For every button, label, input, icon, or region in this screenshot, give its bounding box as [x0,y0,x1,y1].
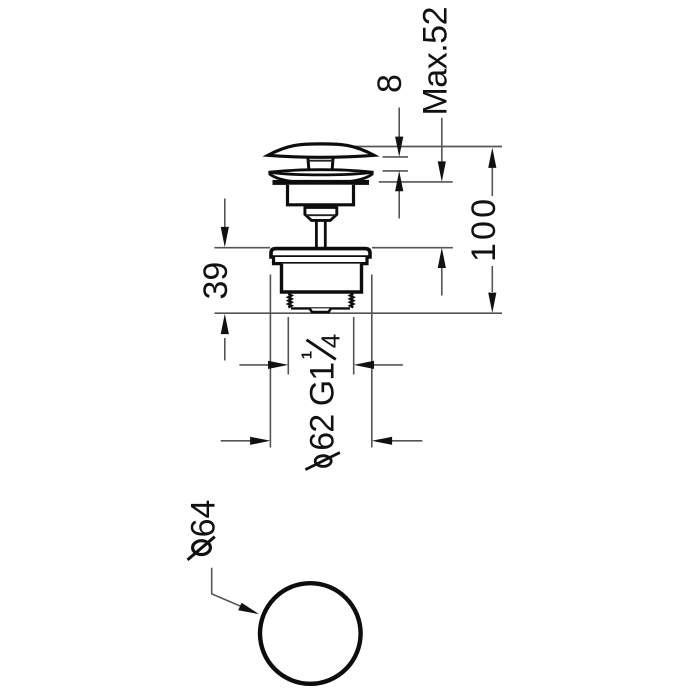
svg-text:Max.52: Max.52 [417,7,455,116]
extension line G114 left [287,317,289,375]
extension line flange top right [372,247,453,249]
gasket bar [273,180,370,185]
dim G114 right arrow [374,364,403,366]
upper body [288,185,354,205]
extension line dia62 left [269,275,271,448]
extension line 8-dim upper [383,156,409,158]
stem [315,221,318,248]
extension line dia62 right [371,275,373,448]
extension line 8-dim lower [383,170,409,172]
dim 39 lower arrow [224,338,226,361]
svg-text:64: 64 [184,500,222,538]
label dia64 [184,500,222,560]
leader line dia64 [212,568,256,613]
dim G114 left arrow [239,364,268,366]
extension line flange top left [214,247,270,249]
bottom cap [310,308,332,312]
svg-text:62 G1: 62 G1 [304,362,342,451]
bulb [305,206,337,220]
lower body [282,264,362,292]
label dia62 G1 1/4 [298,334,345,470]
dim 8 upper arrow [398,108,400,153]
flange rosette [269,170,374,175]
thread right [350,294,353,308]
svg-text:1: 1 [298,351,315,359]
skirt left [269,174,295,182]
svg-text:39: 39 [197,262,235,300]
cap neck [308,157,333,170]
dim 100 upper arrow [491,152,493,196]
thread bottom [291,307,350,309]
dim 100 lower arrow [491,266,493,292]
svg-text:8: 8 [371,74,409,93]
dim dia62 right arrow [392,440,422,442]
lower flange [271,249,370,257]
extension line G114 right [353,317,355,375]
extension line gasket bottom right [379,181,453,183]
circle dia64 [260,583,361,684]
cap dome [268,144,374,157]
dim 39 upper arrow [224,199,226,244]
svg-text:4: 4 [316,334,346,348]
lower flange band [274,257,368,264]
bottom reference line [215,312,503,314]
leader arrowhead [238,603,259,614]
thread left [288,294,291,308]
skirt right [347,174,373,182]
dim Max52 upper arrow [441,118,443,177]
dim dia62 left arrow [221,440,251,442]
top reference line (sink level) [354,146,502,148]
dim Max52 lower arrow [441,252,443,296]
dim 8 lower arrow [398,176,400,219]
svg-text:100: 100 [465,199,503,262]
